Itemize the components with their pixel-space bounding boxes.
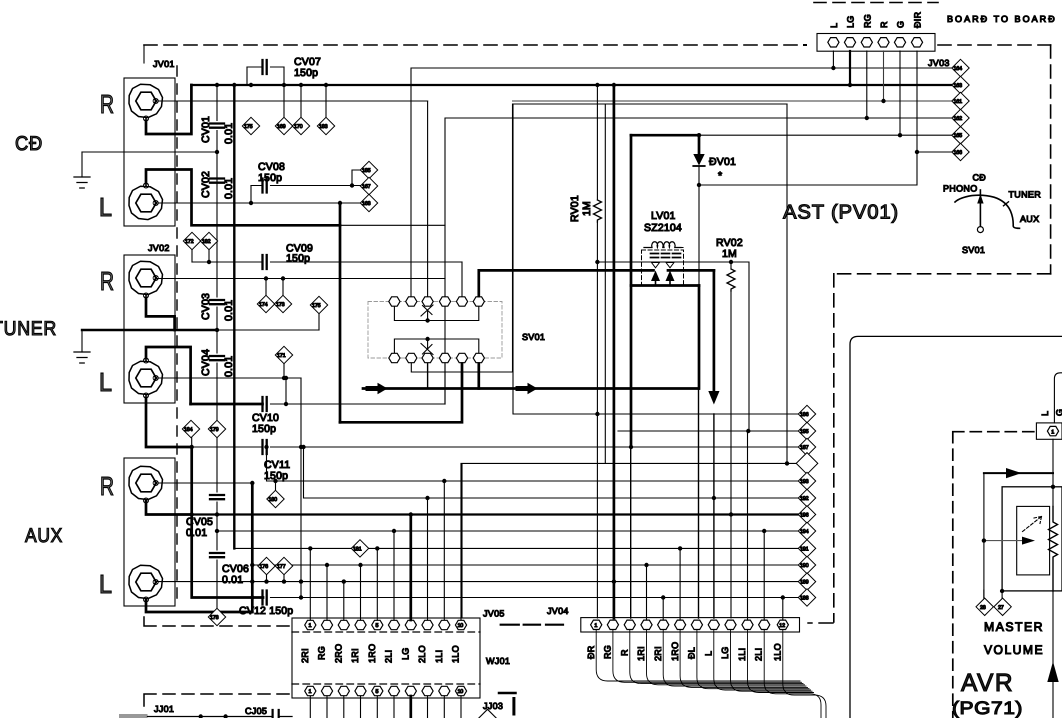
svg-text:195: 195 bbox=[800, 429, 809, 435]
node 167 bbox=[360, 177, 377, 194]
junction dots line 597.5 bbox=[299, 595, 303, 599]
node 28 bbox=[976, 590, 993, 616]
svg-text:175: 175 bbox=[244, 124, 253, 130]
bold wire x=340 CD-L net to SV01 row2 bbox=[339, 203, 342, 422]
svg-text:10: 10 bbox=[458, 689, 464, 695]
junction dots TUNER R line bbox=[264, 276, 268, 280]
svg-text:TUNER: TUNER bbox=[1009, 190, 1042, 200]
PV01 board dashed right edge bbox=[1050, 45, 1052, 274]
wire TUNER R pin line y=279 bbox=[156, 278, 446, 280]
PV01 left dashed edge bbox=[176, 66, 178, 604]
svg-text:L: L bbox=[829, 23, 839, 28]
connector JV01 box bbox=[124, 78, 175, 226]
svg-text:10: 10 bbox=[458, 623, 464, 629]
capacitor CV05 bbox=[210, 495, 224, 499]
wire JV04 pin11 feed bbox=[763, 531, 765, 620]
wires JV04 harness curves bbox=[596, 630, 826, 718]
wire pot bottom down to arrow bbox=[1052, 591, 1054, 718]
junction dots line 548 bbox=[308, 546, 312, 550]
bold wire LV01 left vertical x=631 bbox=[630, 135, 633, 447]
WJ01 bottom pin 2 bbox=[321, 686, 332, 695]
svg-text:174: 174 bbox=[259, 302, 268, 308]
svg-text:AUX: AUX bbox=[25, 525, 63, 547]
svg-text:181: 181 bbox=[353, 546, 362, 552]
svg-text:173: 173 bbox=[276, 302, 285, 308]
JV04 pin 12 bbox=[777, 620, 788, 629]
svg-text:L: L bbox=[99, 192, 112, 222]
node 177 bbox=[275, 557, 292, 581]
jack TUNER R bbox=[129, 261, 163, 294]
junction dots line 481 bbox=[273, 479, 277, 483]
node 188 bbox=[798, 589, 815, 606]
svg-text:185: 185 bbox=[362, 168, 371, 174]
wire pin down into pot box bbox=[1052, 439, 1054, 506]
svg-text:2RO: 2RO bbox=[334, 644, 344, 663]
SV01 row2 contact 1 bbox=[389, 353, 400, 362]
SV01 row2 contact 5 bbox=[456, 353, 467, 362]
svg-text:150p: 150p bbox=[286, 253, 310, 265]
svg-text:1LO: 1LO bbox=[451, 645, 461, 663]
svg-text:182: 182 bbox=[202, 239, 211, 245]
node 164 bbox=[952, 59, 969, 76]
node 175 bbox=[242, 117, 259, 134]
wire DIR line y=185 bbox=[699, 51, 917, 185]
bold arrow up on output bbox=[1047, 662, 1058, 683]
svg-text:1LO: 1LO bbox=[773, 643, 783, 661]
JV04 pin 4 bbox=[641, 620, 652, 629]
svg-text:1LI: 1LI bbox=[737, 648, 747, 661]
junction dots CV11 line y=447 bbox=[190, 445, 194, 449]
node 166 bbox=[952, 143, 969, 160]
capacitor CV08 bbox=[251, 170, 361, 203]
svg-text:LG: LG bbox=[846, 15, 856, 28]
bold wire LV01 bottom bar y=285.5 bbox=[631, 284, 699, 287]
bold wire CD L top pin jog bbox=[146, 170, 340, 226]
node 195 bbox=[798, 422, 815, 439]
WJ01 top pin 3 bbox=[338, 620, 349, 629]
bold wire hex5 row2 drop to line 422 bbox=[340, 364, 462, 423]
wire WJ01 pin1 feed bbox=[309, 548, 311, 620]
svg-text:189: 189 bbox=[800, 580, 809, 586]
svg-text:164: 164 bbox=[954, 66, 963, 72]
node 162 bbox=[952, 109, 969, 126]
svg-text:192: 192 bbox=[800, 496, 809, 502]
svg-text:*: * bbox=[718, 170, 722, 182]
node 191 bbox=[798, 540, 815, 557]
bold wire AUX L bottom stub bbox=[146, 600, 252, 612]
node 194 bbox=[798, 522, 815, 539]
svg-text:0.01: 0.01 bbox=[186, 527, 207, 539]
svg-text:1M: 1M bbox=[581, 201, 593, 216]
svg-text:27: 27 bbox=[998, 605, 1004, 611]
node 180 bbox=[267, 481, 284, 508]
junction dots line 498 bbox=[425, 496, 429, 500]
node 185 bbox=[360, 161, 377, 178]
node 184 bbox=[182, 420, 199, 447]
bold wire AUX R bottom to x=191.7 bbox=[146, 501, 192, 515]
svg-text:1M: 1M bbox=[722, 248, 737, 260]
PV01 board dashed outline top edge bbox=[144, 44, 800, 46]
svg-text:CV03: CV03 bbox=[200, 293, 212, 320]
svg-text:ĐIR: ĐIR bbox=[913, 11, 923, 28]
wire RV01 net x=597.4 bbox=[596, 85, 598, 618]
svg-text:AUX: AUX bbox=[1020, 214, 1039, 224]
JV04 pin 9 bbox=[725, 620, 736, 629]
WJ01 top pin 10 bbox=[455, 620, 466, 629]
capacitor CV09 bbox=[192, 255, 462, 269]
wire pin L drop bbox=[832, 51, 834, 68]
wire WJ01 pin6 feed bbox=[393, 531, 395, 620]
resistor RV02 bbox=[727, 269, 735, 291]
master volume connector pin bbox=[1047, 426, 1058, 435]
junction dots bottom wire bbox=[199, 714, 228, 718]
svg-text:170: 170 bbox=[294, 124, 303, 130]
wire line y=565 bbox=[252, 564, 798, 566]
LV01 core bars bbox=[651, 254, 681, 258]
svg-text:179: 179 bbox=[210, 427, 219, 433]
wire corner x=983.9 down bbox=[983, 473, 985, 598]
svg-text:JV03: JV03 bbox=[928, 58, 950, 68]
wire row2 bus y=372 bbox=[411, 104, 512, 372]
pot wiper arrow bbox=[984, 540, 1022, 542]
svg-text:168: 168 bbox=[362, 201, 371, 207]
wire WJ01 pin3 feed bbox=[343, 582, 345, 620]
SV01 row1 wiper bbox=[421, 305, 433, 321]
LV01 wires from coils up bbox=[644, 247, 683, 249]
wire WJ01 pin9 feed bbox=[443, 481, 445, 620]
wire line y=481 bbox=[267, 447, 799, 481]
SV01 row2 wiper bbox=[421, 339, 433, 355]
JV04 pin 8 bbox=[708, 620, 719, 629]
svg-text:(PG71): (PG71) bbox=[952, 698, 1023, 718]
svg-text:RG: RG bbox=[603, 645, 613, 659]
junction dots line 565 bbox=[250, 563, 254, 567]
jack TUNER L bbox=[129, 361, 163, 394]
svg-text:172: 172 bbox=[185, 239, 194, 245]
svg-text:RV01: RV01 bbox=[569, 195, 581, 222]
WJ01 top pin 6 bbox=[388, 620, 399, 629]
SV01 row2 contact 2 bbox=[406, 353, 417, 362]
svg-text:CV02: CV02 bbox=[200, 171, 212, 198]
svg-text:183: 183 bbox=[319, 124, 328, 130]
wire hex5 row1 feed corner from CV09 line bbox=[461, 262, 463, 296]
capacitor CV12 bbox=[263, 591, 799, 605]
svg-text:171: 171 bbox=[277, 353, 286, 359]
junction dots line 463 bbox=[785, 461, 789, 465]
junction dots CV10 line bbox=[284, 402, 288, 406]
SV01 row2 common bar bbox=[394, 339, 478, 354]
jack AUX R bbox=[129, 466, 163, 499]
bold wire TUNER R bottom jog to ground bbox=[146, 298, 175, 330]
bold wire row2 wiper line with arrows y=388.5 bbox=[363, 387, 699, 390]
WJ01 bottom pin 6 bbox=[388, 686, 399, 695]
arrow down on x=713.9 bbox=[708, 391, 719, 405]
svg-text:JV02: JV02 bbox=[148, 243, 170, 253]
svg-text:R: R bbox=[100, 89, 114, 119]
svg-text:2LI: 2LI bbox=[384, 650, 394, 663]
rotary switch SV01 pointer bbox=[977, 190, 983, 233]
node 163 bbox=[952, 76, 969, 93]
node 170 bbox=[292, 85, 309, 135]
connector pin LG bbox=[844, 38, 855, 47]
svg-text:1: 1 bbox=[1051, 429, 1054, 435]
pot resistor bbox=[1049, 506, 1058, 591]
PV01 bottom dash-dot right of JV04 bbox=[808, 622, 833, 624]
bold wire L-channel x=713.9 with down arrow bbox=[713, 270, 716, 392]
JV04 pin 7 bbox=[691, 620, 702, 629]
LV01 secondary hollow contacts bbox=[652, 263, 675, 268]
svg-text:184: 184 bbox=[184, 427, 193, 433]
svg-text:1LI: 1LI bbox=[434, 650, 444, 663]
svg-text:1: 1 bbox=[309, 623, 312, 629]
svg-text:5: 5 bbox=[376, 623, 379, 629]
wire x=698.5 down to JV04 pin7 bbox=[698, 389, 700, 619]
svg-text:5: 5 bbox=[376, 689, 379, 695]
wire line y=531 bbox=[217, 530, 799, 532]
svg-text:1: 1 bbox=[309, 689, 312, 695]
ground symbol TUNER bbox=[74, 330, 90, 363]
node 174 bbox=[257, 279, 274, 313]
svg-text:177: 177 bbox=[277, 564, 286, 570]
wire line y=514.5 LG bbox=[192, 513, 799, 515]
svg-text:180: 180 bbox=[269, 497, 278, 503]
svg-text:1RI: 1RI bbox=[350, 648, 360, 663]
svg-text:CV04: CV04 bbox=[200, 349, 212, 376]
junction dot CV08 bbox=[350, 183, 354, 187]
svg-text:R: R bbox=[100, 471, 114, 501]
AVR block rounded corner box bbox=[850, 336, 1062, 718]
WJ01 top pin 4 bbox=[355, 620, 366, 629]
wire line y=104 from corner x=513 bbox=[513, 103, 787, 105]
wire JV04 pin4 feed bbox=[646, 565, 648, 620]
svg-text:AST (PV01): AST (PV01) bbox=[783, 202, 899, 224]
svg-text:12: 12 bbox=[779, 623, 785, 629]
capacitor CV06 bbox=[210, 553, 224, 557]
wire JV04 pin10 feed bbox=[747, 431, 749, 620]
PV01 bottom dash-dot between JV05 and JV04 bbox=[501, 624, 563, 626]
PV01 dash-dot joint near connector bbox=[804, 44, 806, 46]
JV04 pin 6 bbox=[675, 620, 686, 629]
svg-text:BOARĐ TO BOARĐ: BOARĐ TO BOARĐ bbox=[947, 14, 1055, 24]
wire hex3 row2 drop bbox=[427, 364, 429, 389]
SV01 row1 contact 2 bbox=[406, 297, 417, 306]
svg-text:LV01: LV01 bbox=[651, 210, 676, 222]
wire vertical x=286 TUNER L to CV10 bbox=[285, 378, 287, 404]
node 169 bbox=[275, 85, 292, 135]
node 178 bbox=[208, 608, 225, 625]
svg-text:L: L bbox=[1040, 411, 1050, 416]
wire JV04 pin12 feed bbox=[782, 598, 784, 621]
wire line y=118 RG-net with corner x=445 bbox=[445, 118, 952, 296]
wire hex4 row2 drop to CV10 line bbox=[444, 364, 446, 405]
svg-text:L: L bbox=[704, 651, 714, 656]
node 173 bbox=[274, 279, 291, 313]
jack CD R bbox=[129, 84, 163, 117]
WJ01 top pin 5 bbox=[372, 620, 383, 629]
node 182 bbox=[200, 232, 217, 262]
node 161 bbox=[952, 92, 969, 109]
bold wire RG net x=613.9 bbox=[613, 85, 616, 618]
bold wire vertical x=191.7 down to CV12 line bbox=[192, 447, 263, 598]
wire WJ01 pin2 feed bbox=[326, 565, 328, 620]
junction dots CD L line bbox=[249, 201, 253, 205]
wire line y=498 bbox=[304, 447, 799, 498]
wire JV04 pin6 feed bbox=[679, 548, 681, 620]
wire x=713.9 lower to JV04 pin8 bbox=[713, 414, 715, 618]
svg-text:G: G bbox=[896, 21, 906, 28]
svg-text:CĐ: CĐ bbox=[973, 173, 987, 183]
svg-text:1RO: 1RO bbox=[367, 644, 377, 663]
svg-text:28: 28 bbox=[980, 605, 986, 611]
rotary switch TUNER tick bbox=[1004, 202, 1009, 206]
node 165 bbox=[952, 127, 969, 144]
svg-text:191: 191 bbox=[800, 546, 809, 552]
LV01 transformer box dashed bbox=[642, 250, 684, 286]
AUX jack box bbox=[124, 458, 175, 606]
bold wire WJ01 bottom pin7 down bbox=[409, 696, 412, 718]
connector pin RG bbox=[861, 38, 872, 47]
junction dots TUNER L line bbox=[282, 376, 286, 380]
wire pin G drop bbox=[899, 51, 901, 135]
connector pin R bbox=[878, 38, 889, 47]
arrow on wiper line left bbox=[368, 386, 378, 391]
svg-text:150p: 150p bbox=[252, 423, 276, 435]
svg-text:169: 169 bbox=[277, 124, 286, 130]
node 190 bbox=[798, 556, 815, 573]
bold wire CD R bottom jog to bus bbox=[146, 85, 191, 134]
JV04 pin 2 bbox=[607, 620, 618, 629]
svg-text:ĐV01: ĐV01 bbox=[709, 156, 736, 168]
svg-text:LG: LG bbox=[720, 646, 730, 659]
WJ01 bottom pin 10 bbox=[455, 686, 466, 695]
wire vertical x=301 CV11 junction chain bbox=[300, 378, 302, 598]
svg-text:G: G bbox=[1055, 409, 1062, 416]
connector pin L bbox=[828, 38, 839, 47]
junction dots line 531 bbox=[215, 529, 219, 533]
node 192 bbox=[798, 489, 815, 506]
svg-text:162: 162 bbox=[954, 116, 963, 122]
svg-text:2RI: 2RI bbox=[653, 646, 663, 661]
master volume connector box bbox=[1036, 423, 1062, 439]
node blank bbox=[796, 453, 818, 475]
LV01 primary coils bbox=[644, 242, 681, 248]
junction dots line 414 bbox=[595, 412, 599, 416]
wires WJ01 bottom pins down bbox=[310, 696, 461, 718]
bold wire hex6 row1 feed from transformer line y=270 bbox=[479, 270, 714, 296]
capacitor CV01 bbox=[210, 124, 224, 128]
svg-text:150p: 150p bbox=[294, 67, 318, 79]
wire pin R drop bbox=[883, 51, 885, 101]
svg-text:JJ01: JJ01 bbox=[154, 704, 174, 714]
junction dots line 431 bbox=[746, 429, 750, 433]
node 176 bbox=[258, 557, 275, 581]
svg-text:RG: RG bbox=[317, 646, 327, 660]
jack AUX L bbox=[129, 565, 163, 598]
svg-text:LG: LG bbox=[401, 647, 411, 660]
arrow on wiper line right bbox=[518, 386, 528, 391]
node diamond partial bottom bbox=[479, 709, 496, 718]
junction dots line 262 bbox=[595, 260, 599, 264]
connector board-to-board box bbox=[817, 34, 935, 52]
WJ01 bottom pin 9 bbox=[439, 686, 450, 695]
svg-text:165: 165 bbox=[954, 133, 963, 139]
svg-text:1: 1 bbox=[594, 623, 597, 629]
bold wire TUNER L top pin jog to CV10 bbox=[146, 347, 191, 404]
PV01 dashed inner vertical edge bbox=[833, 274, 835, 622]
svg-text:190: 190 bbox=[800, 563, 809, 569]
svg-text:2LO: 2LO bbox=[417, 645, 427, 663]
wire AUX L pin line y=581.6 bbox=[156, 581, 799, 583]
wire WJ01 pin8 feed bbox=[427, 498, 429, 620]
svg-text:SV01: SV01 bbox=[522, 332, 545, 342]
wire CD ground to bus bbox=[82, 151, 217, 153]
wire CD L pin line y=203 bbox=[156, 202, 361, 204]
master volume inner box bbox=[1017, 506, 1050, 575]
node 27 bbox=[994, 591, 1011, 616]
SV01 row1 contact 4 bbox=[439, 297, 450, 306]
resistor RV01 bbox=[594, 200, 602, 222]
svg-text:194: 194 bbox=[800, 529, 809, 535]
bold arrow wire into AVR bbox=[984, 472, 1053, 474]
wire WJ01 pin5 feed bbox=[376, 548, 378, 620]
JV04 pin 5 bbox=[658, 620, 669, 629]
bold wire WJ01 pin7 feed LG bbox=[409, 515, 412, 621]
wire line y=431 bbox=[618, 430, 799, 432]
node 189 bbox=[798, 573, 815, 590]
bold wire LV01 top loop y=135 bbox=[631, 134, 699, 137]
wire line y=135 right part G-net bbox=[699, 134, 952, 136]
connector pin G bbox=[894, 38, 905, 47]
PV01 bottom-left dashed edge bbox=[144, 617, 290, 626]
node 175b bbox=[310, 296, 327, 330]
PV01 left edge top stub bbox=[143, 45, 145, 63]
node 183 bbox=[317, 85, 334, 135]
junction dots master volume bbox=[982, 538, 986, 542]
wire CD L net line y=225.3 to SV01 bbox=[340, 224, 445, 226]
svg-text:AVR: AVR bbox=[961, 669, 1014, 697]
wire WJ01 pin4 feed bbox=[360, 565, 362, 620]
svg-text:R: R bbox=[620, 649, 630, 656]
jack CD L bbox=[129, 186, 163, 219]
node 196 bbox=[798, 506, 815, 523]
junction dots top lines bbox=[831, 66, 835, 70]
svg-text:188: 188 bbox=[800, 596, 809, 602]
wire pin RG drop bbox=[866, 51, 868, 118]
capacitor CV02 bbox=[210, 179, 224, 183]
SV01 row1 contact 5 bbox=[456, 297, 467, 306]
capacitor CV03 bbox=[210, 300, 224, 304]
wire AUX R pin line y=483 bbox=[156, 482, 253, 484]
svg-text:178: 178 bbox=[210, 615, 219, 621]
wire arrester stubs bbox=[656, 281, 671, 286]
wire RV02 net x=731 bbox=[730, 262, 732, 618]
arrow right AVR bbox=[1006, 468, 1022, 478]
SV01 row1 common bar bbox=[394, 306, 478, 321]
WJ01 top pin 1 bbox=[305, 620, 316, 629]
PV01 dashed inner bottom edge bbox=[834, 273, 1051, 275]
svg-text:161: 161 bbox=[954, 99, 963, 105]
junction dots CV09 line bbox=[207, 260, 211, 264]
svg-text:TUNER: TUNER bbox=[0, 318, 57, 340]
svg-text:176: 176 bbox=[260, 564, 269, 570]
svg-text:PHONO: PHONO bbox=[943, 184, 978, 194]
capacitor CV07 bbox=[247, 60, 284, 85]
wire bottom edge y=717 bbox=[148, 716, 293, 718]
wire bus x=217 segments between caps bbox=[216, 85, 218, 609]
WJ01 bottom pin 8 bbox=[422, 686, 433, 695]
bold wire hex6 row2 drop bbox=[477, 364, 480, 389]
svg-text:163: 163 bbox=[954, 83, 963, 89]
